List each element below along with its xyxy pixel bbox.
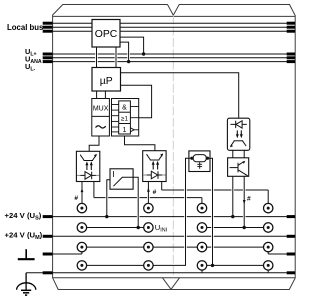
row4 line right: [207, 264, 264, 266]
earth stub left: [43, 271, 53, 274]
row4 line left: [87, 264, 144, 266]
current limiter I box: [110, 169, 133, 189]
light arrows down: [237, 130, 241, 135]
svg-text:≥1: ≥1: [121, 116, 128, 123]
junction dot on UL-: [127, 60, 130, 63]
gate output ticks: [130, 107, 138, 130]
junction dot row4: [211, 264, 214, 267]
DC-DC converter box: [189, 151, 210, 172]
wire logic to opto2: [125, 136, 155, 151]
U stubs left: [43, 54, 53, 62]
ground symbol: [18, 249, 35, 259]
wire opto3 to transistor left: [232, 150, 234, 158]
wire UANA line: [51, 57, 295, 59]
wire uP-MUX left: [96, 91, 98, 99]
rail1 stub right: [287, 215, 295, 218]
svg-text:#: #: [247, 195, 251, 202]
edge trigger triangle: [130, 128, 134, 132]
wire opto1 to terminal 1 with arrow: [81, 182, 83, 204]
MUX box: [92, 99, 110, 137]
junction dot on UL+: [142, 52, 145, 55]
OPC box: [92, 20, 120, 48]
svg-text:µP: µP: [100, 76, 113, 87]
phototransistor: [231, 141, 246, 146]
LED: [77, 174, 80, 176]
junction dot rail1 left: [105, 215, 108, 218]
wire Ibox left lead to rail1: [107, 180, 110, 217]
svg-text:#: #: [74, 195, 78, 202]
wire opto1 emitter to terminal col3 row1: [94, 182, 202, 204]
logic gate box: [112, 99, 139, 137]
wire DCDC left leg: [153, 158, 192, 265]
wire OPC-uP left: [96, 47, 98, 68]
output optocoupler 3: [227, 118, 249, 150]
gate input ticks: [112, 105, 119, 132]
svg-text:MUX: MUX: [93, 106, 109, 113]
row3 line: [87, 246, 264, 248]
terminal circles col3: [197, 203, 206, 270]
local bus line 1: [51, 23, 295, 31]
wire opto2 emitter to terminal col4 row1: [162, 182, 269, 204]
terminal circles col4: [264, 203, 273, 270]
svg-text:&: &: [122, 104, 127, 111]
optocoupler 2: [143, 151, 166, 182]
DAC tilde symbol: [96, 126, 106, 128]
rail1 stub left: [43, 215, 53, 218]
rail2 stub left: [43, 235, 53, 238]
microprocessor uP box: [92, 68, 121, 92]
svg-text:1: 1: [123, 127, 127, 134]
wire OPC to UL-: [120, 42, 129, 62]
junction dot UINI: [137, 226, 140, 229]
rail2 stub right: [287, 235, 295, 238]
wire uP to output opto: [121, 73, 239, 118]
wire opto3 to transistor right: [243, 150, 245, 158]
earth symbol: [17, 273, 36, 295]
junction dot rail1 right: [231, 215, 234, 218]
svg-text:I: I: [112, 169, 114, 179]
center dash-dot line: [172, 15, 174, 277]
wire UL+ line: [51, 54, 295, 62]
wire uP to logic: [121, 85, 152, 117]
wire uP-MUX right: [104, 91, 106, 99]
U stubs right: [287, 54, 295, 62]
earth rail: [26, 270, 295, 273]
local bus line 2: [51, 26, 92, 28]
earth stub right: [287, 271, 295, 274]
svg-text:OPC: OPC: [95, 29, 118, 40]
terminal circles col2: [144, 203, 153, 270]
wire UL- line: [51, 61, 295, 63]
wire DCDC right leg: [208, 158, 213, 265]
local bus line 3: [51, 30, 92, 32]
wire Ibox output to UINI: [133, 177, 138, 227]
light arrows: [87, 165, 91, 171]
module housing outline: [53, 5, 296, 290]
optocoupler 1: [76, 151, 99, 181]
rail3 GND left segment: [52, 252, 82, 254]
rail3 stub right: [287, 253, 295, 256]
rail2 +24V UM: [52, 235, 295, 237]
wire transistor emitter to rail1: [232, 176, 234, 216]
LED: [230, 123, 246, 125]
svg-text:Local bus: Local bus: [7, 23, 44, 32]
rail1 +24V US: [52, 216, 295, 218]
rail3 stub left: [43, 253, 53, 256]
output transistor box: [228, 158, 249, 177]
wire OPC-uP right: [115, 47, 117, 68]
rail3 GND right segment: [268, 252, 295, 254]
junction dot row2 right: [243, 226, 246, 229]
light arrows: [153, 164, 157, 170]
wire opto2 to terminal 2 with arrow: [147, 182, 149, 204]
LED: [143, 174, 146, 176]
wire transistor to row2 with arrow: [243, 176, 245, 227]
svg-text:#: #: [153, 189, 157, 196]
row2 line UINI: [87, 227, 264, 229]
local bus stubs right: [287, 23, 295, 31]
wire MUX to opto1: [89, 136, 99, 151]
wire OPC to UL+: [120, 37, 144, 54]
terminal circles col1: [77, 203, 86, 270]
local bus stubs left: [43, 23, 53, 31]
